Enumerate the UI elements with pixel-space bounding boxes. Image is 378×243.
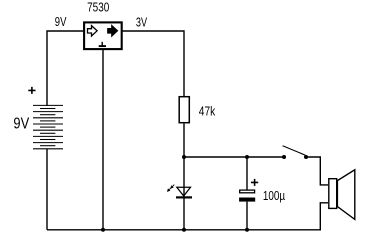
capacitor C1 plus sign <box>251 179 258 186</box>
mid rail wire from resistor node to switch left contact <box>184 156 284 158</box>
wire from battery + up and right to regulator input <box>47 31 84 106</box>
svg-text:3V: 3V <box>136 15 148 29</box>
wire regulator ground down to bottom rail <box>102 50 104 230</box>
ground symbol inside regulator <box>101 42 103 46</box>
wire battery - down to bottom rail <box>46 149 48 230</box>
battery BT1 plus sign <box>28 87 35 94</box>
wire switch right contact to speaker top terminal <box>306 157 328 185</box>
node capacitor/mid-rail junction <box>245 155 249 159</box>
speaker LS1 body <box>329 179 337 209</box>
LED D1 triangle <box>177 187 191 196</box>
bottom rail wire <box>47 203 328 230</box>
wire LED anode from mid rail down through triangle <box>183 157 185 196</box>
switch S1 left contact <box>282 155 286 159</box>
svg-text:100µ: 100µ <box>263 189 285 203</box>
battery BT1 9V cells <box>33 105 63 148</box>
svg-text:9V: 9V <box>13 115 29 132</box>
node LED/bottom-rail junction <box>182 228 186 232</box>
capacitor C1 positive plate <box>240 190 255 193</box>
wire capacitor top from mid rail <box>246 157 248 190</box>
regulator U1 box 7530 <box>84 22 122 49</box>
wire regulator output 3V to resistor top <box>122 31 185 96</box>
wire capacitor bottom to bottom rail <box>246 202 248 230</box>
svg-text:47k: 47k <box>199 105 216 119</box>
switch S1 right contact <box>304 155 308 159</box>
wire LED cathode to bottom rail <box>183 199 185 230</box>
LED D1 cathode bar <box>176 196 192 198</box>
speaker LS1 cone <box>337 170 354 220</box>
node resistor/mid-rail junction <box>182 155 186 159</box>
svg-text:9V: 9V <box>55 15 67 29</box>
LED light arrow upper <box>170 185 174 189</box>
capacitor C1 negative plate <box>239 198 255 202</box>
svg-text:7530: 7530 <box>87 0 109 14</box>
switch S1 lever <box>283 146 306 156</box>
filled arrow inside regulator <box>108 26 118 36</box>
node capacitor/bottom-rail junction <box>245 228 249 232</box>
LED light arrow lower <box>167 188 171 192</box>
node regulator-ground/bottom-rail junction <box>101 228 105 232</box>
wire resistor bottom to mid node <box>183 124 185 158</box>
outline arrow inside regulator <box>88 26 98 36</box>
resistor R1 47k body <box>179 97 189 123</box>
